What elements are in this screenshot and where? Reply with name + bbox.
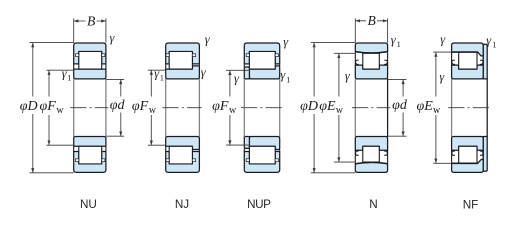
NF bearing side edges	[451, 79, 453, 137]
svg-text:NUP: NUP	[247, 198, 271, 211]
NU centerline	[70, 107, 108, 109]
N dimension phiEw line	[338, 53, 340, 162]
NJ bearing side edges	[165, 79, 167, 137]
svg-text:NF: NF	[463, 199, 479, 212]
NF dimension phiEw line	[435, 52, 437, 163]
N bearing bottom section	[355, 137, 387, 173]
NU dimension phiFw line	[48, 70, 50, 145]
svg-text:NJ: NJ	[175, 198, 189, 211]
NUP dimension phiFw extension lines	[226, 69, 250, 71]
NUP centerline	[241, 107, 282, 109]
svg-text:w: w	[336, 105, 344, 116]
NU dimension phiD line	[32, 43, 34, 173]
NUP bearing bottom section	[244, 137, 279, 173]
svg-text:φE: φE	[319, 99, 336, 114]
N bearing top section	[355, 43, 387, 79]
N dimension phiEw extension lines	[334, 52, 355, 54]
svg-text:φF: φF	[212, 99, 229, 114]
svg-text:φd: φd	[110, 98, 126, 113]
NU dimension phid extension lines	[106, 78, 124, 80]
NU bearing top section	[74, 43, 106, 79]
NF bearing bottom section	[452, 137, 488, 173]
N dimension B extension lines	[354, 18, 356, 42]
svg-text:NU: NU	[80, 198, 97, 211]
svg-text:w: w	[229, 105, 237, 116]
NUP dimension phiFw line	[229, 70, 231, 145]
NJ centerline	[162, 107, 201, 109]
N dimension B line	[355, 20, 387, 22]
NF centerline	[448, 107, 490, 109]
NU dimension B line	[74, 20, 106, 22]
svg-text:B: B	[367, 13, 375, 28]
svg-text:φD: φD	[300, 99, 318, 114]
svg-text:1: 1	[67, 73, 71, 82]
svg-text:φF: φF	[40, 99, 57, 114]
N dimension phid line	[402, 79, 404, 136]
NU dimension B extension lines	[73, 18, 75, 42]
N bearing side edges	[354, 79, 356, 137]
NU bearing side edges	[73, 79, 75, 137]
NUP bearing top section	[244, 43, 279, 79]
svg-text:N: N	[369, 198, 377, 211]
svg-text:1: 1	[160, 73, 164, 82]
svg-text:w: w	[149, 105, 157, 116]
NU dimension phiFw extension lines	[46, 69, 73, 71]
NJ dimension phiFw extension lines	[148, 69, 166, 71]
NJ bearing bottom section	[166, 137, 200, 173]
svg-text:B: B	[87, 13, 95, 28]
svg-text:1: 1	[286, 76, 290, 85]
svg-text:φE: φE	[417, 99, 434, 114]
svg-text:φD: φD	[20, 99, 38, 114]
N centerline	[352, 107, 390, 109]
svg-text:w: w	[433, 105, 441, 116]
svg-text:1: 1	[492, 40, 496, 49]
svg-text:φF: φF	[132, 99, 149, 114]
NJ bearing top section	[166, 43, 200, 79]
NJ dimension phiFw line	[150, 70, 152, 145]
N dimension phid extension lines	[388, 78, 407, 80]
NU dimension phiD extension lines	[29, 42, 73, 44]
N dimension phiD line	[313, 43, 315, 173]
NF dimension phiEw extension lines	[433, 51, 451, 53]
N dimension phiD extension lines	[311, 42, 356, 44]
svg-text:1: 1	[397, 40, 401, 49]
NF bearing top section	[452, 43, 488, 79]
svg-text:φd: φd	[392, 98, 408, 113]
svg-text:w: w	[56, 105, 64, 116]
NUP bearing side edges	[243, 79, 245, 137]
NU bearing bottom section	[74, 137, 106, 173]
NU dimension phid line	[120, 79, 122, 136]
